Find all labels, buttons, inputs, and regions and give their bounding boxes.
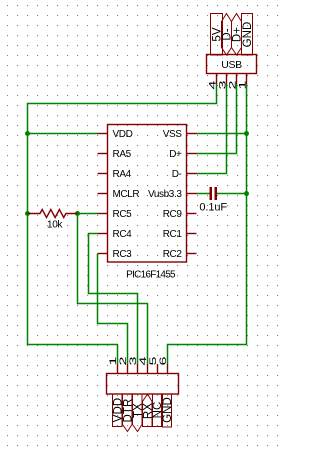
U1 pin stub MCLR [98, 193, 108, 195]
U1 pin stub D- [187, 173, 197, 175]
U1 pin stub RC3 [98, 253, 108, 255]
junction node VSS/GND [244, 131, 249, 136]
U1 pin stub RC9 [187, 213, 197, 215]
wire capacitor to GND rail [217, 193, 247, 195]
wire RC3 net to J1 pin2 DTR [98, 254, 128, 365]
svg-text:RC9: RC9 [163, 209, 183, 220]
U1 pin stub VSS [187, 133, 197, 135]
svg-text:RA4: RA4 [113, 169, 132, 180]
U1 pin stub D+ [187, 153, 197, 155]
U1 pin stub RA5 [98, 153, 108, 155]
svg-text:10k: 10k [47, 220, 63, 231]
junction node RC5/resistor right [75, 211, 80, 216]
global label RX flag [143, 394, 153, 427]
op-amp U1 PIC16F1455 body [108, 125, 187, 263]
USB pin stub 1 [246, 74, 248, 85]
global label DTR flag [123, 394, 133, 432]
USB pin stub 3 [226, 74, 228, 85]
wire D+ net: U1 to USB pin2 [197, 84, 237, 154]
svg-text:RC2: RC2 [163, 249, 183, 260]
svg-text:MCLR: MCLR [113, 189, 140, 200]
svg-text:RC4: RC4 [113, 229, 133, 240]
J1 pin stub 4 [147, 364, 149, 374]
USB connector J2 body [207, 55, 257, 74]
svg-text:6: 6 [157, 357, 168, 366]
svg-text:GND: GND [242, 22, 254, 48]
U1 pin stub RC5 [98, 213, 108, 215]
svg-text:Vusb3.3: Vusb3.3 [148, 189, 182, 200]
global label GND flag bottom [163, 394, 172, 427]
connector J1 body [107, 374, 179, 395]
svg-text:VDD: VDD [113, 129, 133, 140]
U1 pin stub RC4 [98, 233, 108, 235]
wire D- net: U1 to USB pin3 [197, 84, 227, 174]
svg-text:RC1: RC1 [163, 229, 183, 240]
U1 pin stub RC1 [187, 233, 197, 235]
wire RC4 net to J1 pin3 TX [89, 234, 138, 365]
U1 pin stub RC2 [187, 253, 197, 255]
junction node 5V/VDD [25, 131, 30, 136]
U1 pin stub VDD [98, 133, 108, 135]
svg-text:D-: D- [172, 169, 182, 180]
capacitor C1 plates [210, 187, 218, 200]
global label NC flag [153, 394, 162, 427]
global label GND flag top [242, 14, 253, 56]
wire VSS to GND rail [197, 133, 247, 135]
svg-text:D+: D+ [169, 149, 182, 160]
J1 pin stub 3 [137, 364, 139, 374]
svg-text:RC5: RC5 [113, 209, 133, 220]
wire resistor right to U1 RC5 [78, 213, 98, 215]
svg-text:1: 1 [237, 81, 248, 90]
J1 pin stub 5 [157, 364, 159, 374]
junction node cap/GND [244, 191, 249, 196]
svg-text:PIC16F1455: PIC16F1455 [126, 270, 176, 281]
J1 pin stub 2 [127, 364, 129, 374]
global label TX flag [133, 394, 143, 432]
svg-text:USB: USB [221, 59, 242, 71]
wire VDD branch to U1 [28, 133, 98, 135]
USB pin stub 4 [216, 74, 218, 85]
USB pin stub 2 [236, 74, 238, 85]
svg-text:RA5: RA5 [113, 149, 132, 160]
J1 pin stub 1 [117, 364, 119, 374]
junction node 5V/resistor left [25, 211, 30, 216]
svg-text:RC3: RC3 [113, 249, 133, 260]
U1 pin stub RA4 [98, 173, 108, 175]
resistor R1 [28, 210, 78, 218]
svg-text:0.1uF: 0.1uF [199, 202, 227, 214]
J1 pin stub 6 [167, 364, 169, 374]
global label 5V flag [211, 14, 223, 56]
svg-text:GND: GND [162, 397, 174, 423]
wire Vusb3.3 to capacitor [197, 193, 210, 195]
global label D- flag [222, 14, 232, 56]
global label VDD flag bottom [113, 394, 123, 427]
global label D+ flag [232, 14, 242, 56]
wire RC5 net down to J1 pin4 RX [78, 214, 148, 365]
U1 pin stub Vusb3.3 [187, 193, 197, 195]
wire GND net: USB pin1 down the right rail, left to J1 pin6 [168, 84, 247, 364]
svg-text:VSS: VSS [163, 129, 183, 140]
wire 5V net: USB pin4 down, left, down the left rail, to J1 pin1 [28, 84, 217, 364]
